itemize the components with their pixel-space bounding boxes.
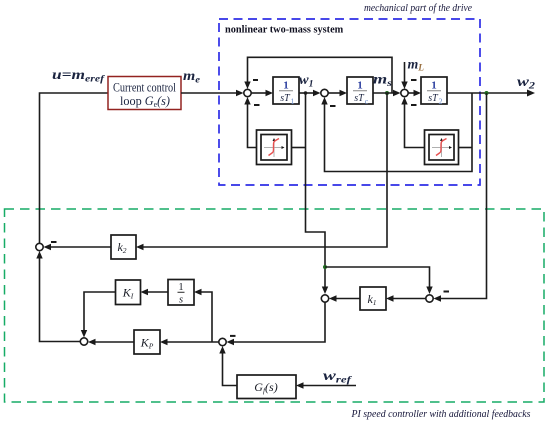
minus sign at J3 top <box>411 79 417 81</box>
wire branch to JE <box>325 267 430 290</box>
wire m_L input <box>404 62 406 85</box>
saturation block S2 <box>425 130 459 165</box>
wire JD down to JC <box>232 303 325 343</box>
wire 1/s to KI <box>147 291 169 293</box>
svg-text:1: 1 <box>431 80 437 92</box>
wire J1 to block 1/sT1 <box>252 92 268 94</box>
svg-text:Current control: Current control <box>113 81 176 95</box>
minus sign at J1 top <box>253 79 258 81</box>
svg-text:1: 1 <box>357 80 363 92</box>
wire w_ref input <box>302 385 356 387</box>
dashed box: PI speed controller <box>5 209 545 402</box>
minus sign at JE <box>444 291 450 293</box>
summing junction JB <box>80 338 87 345</box>
svg-text:nonlinear two-mass system: nonlinear two-mass system <box>225 25 344 36</box>
wire S1 output to J1 <box>248 101 257 148</box>
svg-text:1: 1 <box>283 80 289 92</box>
wire J2 to block 1/sTc <box>329 92 342 94</box>
wire JB to JA <box>40 254 81 342</box>
svg-text:PI speed controller with addit: PI speed controller with additional feed… <box>351 409 531 420</box>
block Gf(s) <box>237 375 296 399</box>
minus sign at JC <box>230 335 236 337</box>
node branch (green) <box>323 265 327 269</box>
minus sign at J1 bottom <box>254 104 260 106</box>
minus sign at J2 bottom <box>330 105 336 107</box>
svg-text:c: c <box>365 97 369 106</box>
svg-text:2: 2 <box>439 97 443 106</box>
summing junction J3 <box>401 89 408 96</box>
wire JC to KP and branch to 1/s <box>166 341 219 343</box>
dashed box: nonlinear two-mass system <box>219 19 480 185</box>
block 1/sTc <box>347 77 373 106</box>
summing junction JC <box>219 338 226 345</box>
wire Gf to JC <box>223 350 238 386</box>
block k1 <box>360 287 386 310</box>
block current control loop Ge(s) <box>108 77 181 110</box>
wire m_s feedback down to k2 <box>142 93 387 247</box>
block k2 <box>111 235 136 259</box>
wire w2 feedback to JE <box>437 93 487 299</box>
svg-text:loop Ge(s): loop Ge(s) <box>120 94 170 109</box>
summing junction JE <box>426 295 433 302</box>
wire k2 to JA <box>47 246 111 248</box>
wire u to current control loop <box>40 93 109 247</box>
block 1/sT2 <box>421 77 447 106</box>
svg-text:1: 1 <box>178 282 183 293</box>
svg-text:1: 1 <box>291 97 295 106</box>
wire m_e to J1 <box>181 92 237 94</box>
wire branch up to 1/s <box>200 292 212 342</box>
wire m_s to J3 <box>373 92 397 94</box>
wire KI to JB <box>84 292 116 334</box>
svg-text:s: s <box>179 295 183 306</box>
saturation block S1 <box>257 130 292 165</box>
svg-text:sT: sT <box>354 93 365 104</box>
node w2 tap (green) <box>485 91 489 95</box>
wire w1 feedback into JD <box>324 267 326 290</box>
node w1 <box>304 91 308 95</box>
node m_s (green) <box>385 91 389 95</box>
wire J3 to block 1/sT2 <box>409 92 416 94</box>
summing junction J1 <box>244 89 251 96</box>
wire S2 input from w2 tap <box>325 93 473 172</box>
block 1/s <box>168 280 194 306</box>
svg-text:Gf(s): Gf(s) <box>254 380 277 395</box>
minus sign at JA <box>51 241 57 243</box>
summing junction JD <box>321 295 328 302</box>
block 1/sT1 <box>273 77 299 106</box>
wire top feedback m_s to J1 <box>248 57 393 93</box>
wire S2 output to J3 <box>405 101 425 148</box>
wire output w2 <box>447 92 528 94</box>
svg-text:mechanical part of the drive: mechanical part of the drive <box>364 3 472 14</box>
wire w1 to J2 <box>299 92 314 94</box>
wire S1 input from w1 line <box>292 147 306 149</box>
summing junction JA <box>36 243 43 250</box>
wire KP to JB <box>94 341 134 343</box>
block KP <box>134 330 160 354</box>
summing junction J2 <box>321 89 328 96</box>
wire k1 to JD <box>335 298 360 300</box>
wire JE to k1 <box>392 298 426 300</box>
block KI <box>116 280 141 305</box>
minus sign at J3 bottom <box>411 104 417 106</box>
wire w1 feedback down <box>306 93 326 267</box>
